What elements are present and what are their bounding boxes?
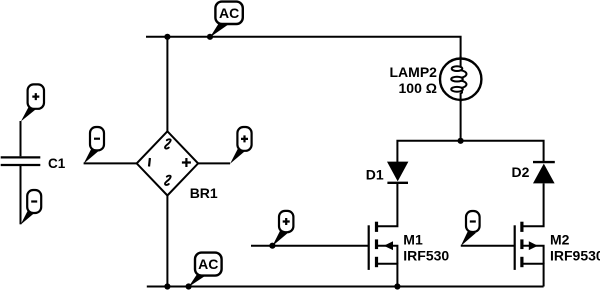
- node lamp / mid rail: [458, 138, 464, 144]
- diode D2: [533, 162, 555, 183]
- wire bridge top: [166, 37, 168, 132]
- svg-text:IRF530: IRF530: [403, 248, 449, 264]
- wire bridge right: [198, 162, 230, 164]
- bridge rectifier BR1: [137, 131, 198, 195]
- wire bottom rail: [147, 286, 544, 288]
- node bottom rail / bridge junction: [164, 283, 170, 289]
- svg-text:M1: M1: [403, 232, 423, 248]
- node AC bottom tap: [186, 283, 192, 289]
- lamp LAMP2: [440, 56, 481, 102]
- label M2 IRF9530: [550, 232, 600, 264]
- flag - (C1 bottom): [21, 190, 42, 225]
- svg-text:AC: AC: [198, 256, 218, 272]
- wire M2 gate: [461, 245, 514, 247]
- wire mid rail: [397, 141, 543, 162]
- label M1 IRF530: [403, 232, 449, 264]
- label D2: [512, 164, 530, 180]
- node M1 source junction: [394, 283, 400, 289]
- node AC tap: [207, 34, 213, 40]
- flag AC (top): [210, 2, 243, 38]
- svg-text:IRF9530: IRF9530: [550, 247, 600, 263]
- flag + (C1 top): [21, 84, 44, 121]
- flag + (bridge right): [230, 127, 251, 164]
- mosfet M2: [515, 222, 544, 287]
- wire lamp bottom: [460, 100, 462, 141]
- wire M1 gate: [251, 245, 368, 247]
- svg-text:BR1: BR1: [190, 185, 218, 201]
- capacitor C1: [1, 121, 41, 224]
- svg-text:D1: D1: [366, 166, 384, 182]
- svg-text:C1: C1: [48, 156, 66, 171]
- node top rail / bridge junction: [164, 34, 170, 40]
- label LAMP2 value: [390, 64, 438, 96]
- wire top rail: [146, 37, 461, 59]
- label BR1: [190, 185, 218, 201]
- flag + (M1 gate): [272, 211, 293, 246]
- svg-text:100 Ω: 100 Ω: [399, 80, 437, 96]
- mosfet M1: [369, 222, 398, 287]
- svg-text:D2: D2: [512, 164, 530, 180]
- flag - (M2 gate): [461, 211, 480, 246]
- label C1: [48, 156, 66, 171]
- wire bridge bottom: [166, 196, 168, 287]
- node M1 gate tap: [269, 243, 275, 249]
- label D1: [366, 166, 384, 182]
- svg-text:M2: M2: [550, 232, 570, 248]
- diode D1: [387, 162, 408, 183]
- wire bridge left: [84, 162, 137, 164]
- wire D1 to M1 drain: [378, 183, 397, 226]
- svg-text:AC: AC: [219, 5, 239, 21]
- flag - (bridge left): [84, 127, 104, 164]
- flag AC (bottom): [189, 253, 222, 287]
- wire D2 to M2 drain: [523, 183, 544, 226]
- svg-text:LAMP2: LAMP2: [390, 64, 438, 80]
